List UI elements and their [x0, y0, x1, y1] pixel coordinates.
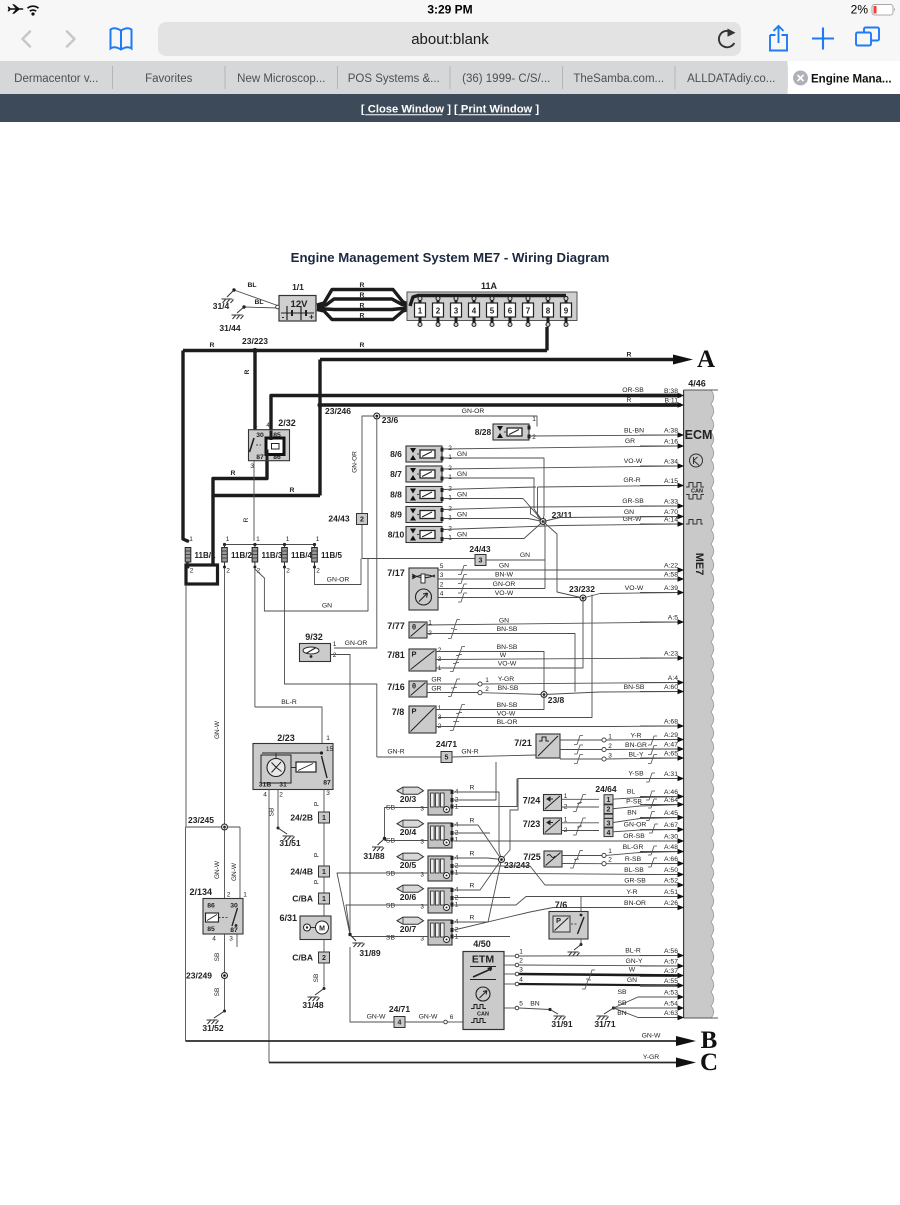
svg-text:A:33: A:33: [664, 499, 678, 506]
wire R relay 2/32 pin 3 down to coil bus: [243, 461, 254, 542]
svg-text:A:22: A:22: [664, 563, 678, 570]
svg-text:C: C: [700, 1049, 718, 1076]
svg-text:31/91: 31/91: [551, 1019, 573, 1029]
wire 11B/4 pin 2 down: [285, 569, 377, 758]
svg-text:1: 1: [322, 869, 326, 876]
oxygen sensor 20/4: [386, 820, 459, 848]
svg-text:2: 2: [438, 647, 442, 654]
svg-text:2: 2: [608, 743, 612, 750]
wire BN-OR 20/7 pin 2 to ECM A:26: [454, 900, 681, 930]
ground 31/4: [213, 290, 234, 311]
svg-text:R: R: [470, 851, 475, 858]
wire GR-R to ECM A:15: [538, 477, 682, 522]
share icon: [770, 26, 787, 51]
wire 20/7 pin 1: [454, 936, 510, 938]
oxygen sensor 20/5: [386, 853, 459, 881]
svg-text:23/8: 23/8: [548, 695, 565, 705]
svg-text:TheSamba.com...: TheSamba.com...: [573, 73, 664, 85]
wire BL-OR 7/8 pin 2 to ECM A:68: [436, 719, 681, 731]
svg-text:A:31: A:31: [664, 771, 678, 778]
svg-text:1: 1: [418, 307, 423, 316]
svg-text:BN-SB: BN-SB: [497, 702, 518, 709]
svg-text:A:54: A:54: [664, 1001, 678, 1008]
wire B battery fan top: [317, 282, 410, 305]
new tab icon: [812, 28, 834, 50]
ECM pin A:34: [640, 459, 684, 469]
svg-text:P-SB: P-SB: [626, 799, 642, 806]
ECM pin A:48: [640, 844, 684, 854]
tab "TheSamba.com...": [573, 73, 664, 85]
injector 8/8: [390, 487, 443, 503]
svg-text:31/51: 31/51: [279, 838, 301, 848]
svg-text:11B/3: 11B/3: [261, 551, 282, 560]
svg-text:2: 2: [455, 895, 459, 902]
node 23/246: [317, 402, 351, 416]
svg-text:ME7: ME7: [693, 553, 705, 576]
ECM pin A:55: [640, 978, 684, 988]
svg-text:7/81: 7/81: [387, 650, 405, 660]
svg-text:4: 4: [440, 591, 444, 598]
svg-text:BL-BN: BL-BN: [624, 428, 644, 435]
ECM pin A:39: [640, 585, 684, 595]
svg-text:BN: BN: [617, 1010, 627, 1017]
ECM CAN symbol: [686, 483, 704, 500]
svg-text:GR-SB: GR-SB: [624, 878, 646, 885]
svg-text:1: 1: [254, 422, 258, 429]
svg-text:2: 2: [436, 307, 441, 316]
svg-text:24/71: 24/71: [436, 739, 458, 749]
svg-text:1: 1: [607, 797, 611, 804]
svg-text:1: 1: [316, 536, 320, 543]
svg-text:BL: BL: [254, 299, 263, 306]
svg-text:GN: GN: [520, 552, 530, 559]
svg-text:4: 4: [212, 936, 216, 943]
svg-text:2: 2: [607, 807, 611, 814]
svg-text:24/2B: 24/2B: [290, 813, 313, 823]
svg-text:GN-R: GN-R: [461, 749, 478, 756]
relay 2/134: [189, 887, 247, 943]
svg-text:CAN: CAN: [477, 1012, 489, 1018]
svg-text:1: 1: [608, 848, 612, 855]
svg-text:Dermacentor v...: Dermacentor v...: [14, 73, 98, 85]
svg-text:ECM: ECM: [685, 428, 713, 442]
svg-text:New Microscop...: New Microscop...: [237, 73, 325, 85]
svg-text:SB: SB: [386, 838, 396, 845]
svg-text:SB: SB: [617, 1000, 627, 1007]
svg-text:R: R: [231, 470, 236, 477]
wire B fuse 8 down to bus: [545, 327, 548, 351]
svg-text:1: 1: [256, 536, 260, 543]
node 23/232: [569, 584, 595, 601]
svg-text:1: 1: [326, 735, 330, 742]
wire SB 2/134 pin 4 to 23/249: [214, 934, 225, 1011]
tab "Favorites": [145, 73, 193, 85]
svg-text:A:29: A:29: [664, 732, 678, 739]
svg-text:SB: SB: [313, 974, 320, 983]
ECM pin A:29: [640, 732, 684, 742]
svg-text:GN-Y: GN-Y: [626, 958, 643, 965]
tab separators: [113, 66, 788, 89]
wire GN connector 24/43 to node 23/11: [486, 522, 545, 561]
svg-text:P: P: [411, 650, 416, 659]
svg-text:5: 5: [519, 1001, 523, 1008]
svg-text:8/9: 8/9: [390, 510, 402, 520]
wire GN-Y 4/50 pin 2 to ECM A:57: [519, 958, 681, 966]
arrow A: [673, 346, 715, 373]
svg-text:1: 1: [455, 837, 459, 844]
svg-text:Favorites: Favorites: [145, 73, 193, 85]
ECM pin A:4: [640, 675, 684, 685]
svg-text:R: R: [627, 397, 632, 404]
wire GN-W ground bus to 24/71: [350, 947, 394, 1022]
wire P 2/23 pin 3 down: [314, 790, 325, 917]
wire 8/7 pin 1 GN: [443, 471, 543, 522]
svg-text:9/32: 9/32: [305, 632, 323, 642]
svg-text:11B/5: 11B/5: [321, 551, 342, 560]
wire node 23/11 to node 23/232: [543, 522, 583, 599]
wire B battery fan 3: [317, 303, 410, 310]
wire R 20/7 pin 4: [454, 860, 502, 923]
ECM pin A:50: [640, 867, 684, 877]
svg-text:7/6: 7/6: [555, 900, 568, 910]
wire Y-GR to ECM A:4: [482, 676, 681, 684]
wire SB 2/23 pin 2 to ground 31/51: [269, 790, 301, 849]
svg-text:A:58: A:58: [664, 572, 678, 579]
svg-text:A:50: A:50: [664, 867, 678, 874]
svg-text:7/16: 7/16: [387, 682, 405, 692]
svg-text:3: 3: [479, 558, 483, 565]
wire B battery fan bottom: [317, 309, 410, 320]
wire BL 7/24 pin 1 via 24/64-1 to ECM A:46: [562, 789, 682, 804]
ECM pin A:57: [640, 959, 684, 969]
svg-text:A:51: A:51: [664, 889, 678, 896]
svg-text:23/245: 23/245: [188, 815, 214, 825]
wire GN-R connector to 7/21: [452, 749, 536, 758]
svg-text:2: 2: [227, 892, 231, 899]
wire BL-SB 20/5 pin 1 to ECM A:50: [454, 867, 681, 875]
ECM ME7 label: [693, 553, 705, 576]
wire BN-GR 7/21 pin 2 to ECM: [560, 742, 681, 755]
svg-text:BN-SB: BN-SB: [497, 626, 518, 633]
ECM pin A:33: [640, 499, 684, 509]
ECM pin A:70: [640, 509, 684, 519]
svg-text:A:34: A:34: [664, 459, 678, 466]
ground 31/44: [219, 307, 244, 333]
fuse 9: [561, 296, 572, 327]
ECM pin A:53: [640, 990, 684, 1000]
svg-text:BL-Y: BL-Y: [628, 752, 644, 759]
svg-text:SB: SB: [269, 808, 276, 817]
wire BL-R 4/50 pin 1 to ECM A:56: [519, 948, 681, 957]
4/50 pin 3: [504, 967, 523, 976]
svg-text:GN-OR: GN-OR: [327, 577, 350, 584]
wire R-SB 7/25 pin 2 to ECM A:66: [562, 856, 681, 868]
wire 7/6 to Y-R line: [580, 897, 582, 912]
sensor 7/77: [387, 620, 432, 639]
svg-text:P: P: [314, 853, 321, 857]
svg-text:31: 31: [279, 782, 287, 789]
svg-text:SB: SB: [386, 805, 396, 812]
wire 8/8 pin 2: [443, 487, 536, 490]
svg-text:1: 1: [333, 641, 337, 648]
ignition coil 11B/2: [221, 536, 252, 575]
wire GN-R into 7/21: [377, 749, 442, 758]
sensor 7/23: [523, 817, 568, 835]
sensor 7/24: [523, 793, 568, 811]
wire GN-OR 7/17 pin2 junction: [544, 560, 546, 589]
wire B relay loop down to 11B/1: [211, 496, 214, 566]
wire GN-OR 7/17 pin 2: [438, 581, 545, 593]
svg-text:R: R: [210, 342, 215, 349]
ground 31/71 fan to ECM A:53 A:54 A:63: [594, 989, 681, 1029]
svg-text:R: R: [243, 517, 250, 522]
svg-text:A:16: A:16: [664, 439, 678, 446]
ECM pin A:26: [640, 900, 684, 910]
svg-text:GR-SB: GR-SB: [622, 498, 644, 505]
tab "(36) 1999- C/S/...": [462, 73, 550, 85]
wire BN 7/23 pin 1 via 24/64-3 to ECM A:45: [562, 810, 682, 828]
wire GN node 23/11 to ECM A:70: [543, 509, 681, 522]
svg-text:1: 1: [532, 416, 536, 423]
svg-text:-: -: [282, 313, 285, 322]
ECM pin A:65: [640, 751, 684, 761]
ECM pin A:63: [640, 1010, 684, 1020]
ignition coil 11B/4: [281, 536, 312, 575]
svg-text:86: 86: [207, 903, 215, 910]
throttle module 4/50 ETM: [463, 939, 504, 1030]
svg-text:GN: GN: [457, 512, 467, 519]
svg-text:5: 5: [490, 307, 495, 316]
fuse 1: [415, 296, 426, 327]
svg-text:P: P: [314, 802, 321, 806]
wire BN-SB 7/8 pin 1 to node 23/8: [436, 695, 544, 714]
svg-text:GR: GR: [431, 686, 441, 693]
svg-text:A:68: A:68: [664, 719, 678, 726]
wire 2/134 pin 3 stub: [236, 934, 238, 947]
svg-text:GN-W: GN-W: [642, 1033, 661, 1040]
relay 2/23: [253, 733, 333, 799]
svg-text:M: M: [319, 926, 325, 933]
svg-text:2%: 2%: [851, 3, 869, 17]
svg-text:2/32: 2/32: [278, 418, 296, 428]
svg-text:1: 1: [455, 934, 459, 941]
wire GN-OR 11B/5 pin 2 to connector 24/43: [315, 559, 362, 585]
fuse 4: [469, 296, 480, 327]
svg-text:1: 1: [448, 495, 452, 502]
wire GR 8/6 pin 2 to ECM A:16: [443, 438, 681, 449]
svg-text:about:blank: about:blank: [411, 31, 489, 48]
svg-text:87: 87: [230, 927, 238, 934]
svg-text:BL-GR: BL-GR: [623, 844, 644, 851]
ECM pin A:23: [640, 651, 684, 661]
svg-text:A:53: A:53: [664, 990, 678, 997]
wire GN-W 23/245 down to 2/134: [224, 827, 226, 898]
svg-text:20/7: 20/7: [400, 924, 417, 934]
wire BL battery to 31/44: [242, 299, 279, 309]
wire GR 7/16 pin 1: [427, 677, 489, 689]
svg-text:7/23: 7/23: [523, 819, 541, 829]
svg-text:A:47: A:47: [664, 742, 678, 749]
motor 6/31: [279, 913, 331, 940]
svg-text:BL: BL: [627, 789, 636, 796]
sensor 7/81: [387, 647, 441, 672]
svg-text:31/48: 31/48: [302, 1000, 324, 1010]
injector 8/7: [390, 466, 443, 482]
svg-text:2: 2: [190, 568, 194, 575]
svg-text:20/5: 20/5: [400, 860, 417, 870]
svg-text:31/52: 31/52: [202, 1023, 224, 1033]
fuse 2: [433, 296, 444, 327]
oxygen sensor 20/3: [386, 787, 459, 815]
4/50 pin 5: [504, 1001, 523, 1010]
back button (disabled): [23, 32, 31, 47]
4/50 pin 2: [504, 958, 523, 967]
svg-text:GN: GN: [457, 492, 467, 499]
fuse 7: [523, 296, 534, 327]
injector 8/9: [390, 507, 443, 523]
wire OR-SB relay 2/32 pin 4 to ECM B:38: [271, 387, 681, 430]
svg-text:OR-SB: OR-SB: [622, 387, 644, 394]
svg-text:BL-OR: BL-OR: [497, 719, 518, 726]
svg-text:12V: 12V: [291, 299, 309, 310]
svg-text:VO-W: VO-W: [625, 585, 644, 592]
wire 11B/3 pin 2 down (BL-R): [254, 569, 256, 708]
svg-text:VO-W: VO-W: [498, 661, 517, 668]
svg-text:BL: BL: [247, 282, 256, 289]
svg-text:1: 1: [448, 454, 452, 461]
svg-text:2: 2: [279, 792, 283, 799]
wire BN 4/50 pin 5 to ground 31/91: [519, 1001, 573, 1030]
svg-text:A:55: A:55: [664, 978, 678, 985]
battery 1/1 12V: [276, 282, 316, 322]
svg-text:20/4: 20/4: [400, 827, 417, 837]
oxygen sensor 20/7: [386, 917, 459, 945]
wire BN-SB 7/77 pin 2: [427, 626, 575, 692]
svg-text:GN: GN: [499, 563, 509, 570]
svg-text:C/BA: C/BA: [292, 894, 313, 904]
ground 31/89: [348, 933, 381, 958]
oxygen sensor 20/6: [386, 885, 459, 913]
wire 8/9 pin 1 GN: [443, 512, 543, 522]
svg-text:85: 85: [207, 926, 215, 933]
wire 7/6 to ground: [568, 939, 583, 956]
wire SB 20/3 pin 3: [385, 808, 429, 839]
status bar airplane icon: [8, 4, 24, 14]
svg-text:SB: SB: [214, 953, 221, 962]
svg-text:20/6: 20/6: [400, 892, 417, 902]
wire R 20/6 pin 4: [454, 860, 502, 891]
svg-text:SB: SB: [386, 935, 396, 942]
wire GR-SB to ECM A:33: [531, 498, 682, 522]
svg-text:BN: BN: [627, 810, 637, 817]
svg-text:A:39: A:39: [664, 585, 678, 592]
svg-text:4: 4: [266, 422, 270, 429]
svg-text:1/1: 1/1: [292, 282, 304, 292]
svg-text:3:29 PM: 3:29 PM: [427, 3, 472, 17]
svg-text:2/23: 2/23: [277, 733, 295, 743]
svg-text:A:5: A:5: [668, 615, 678, 622]
wire VO-W 7/8 pin 3 label: [453, 711, 516, 722]
svg-text:11B/2: 11B/2: [231, 551, 252, 560]
wire B 11B/1 shield loop: [186, 562, 218, 584]
wire GN-W 24/71 to 4/50 pin 6: [405, 1014, 463, 1024]
wire VO-W 7/81 pin 1 to node 23/232: [436, 598, 583, 672]
sensor 7/21: [514, 734, 560, 758]
wire BN-SB 7/81 pin 2 to node 23/8: [436, 644, 544, 695]
svg-text:GN-W: GN-W: [214, 720, 221, 739]
svg-text:P: P: [314, 880, 321, 884]
svg-text:31/89: 31/89: [359, 948, 381, 958]
svg-text:23/6: 23/6: [382, 415, 399, 425]
wire SB 20/6 pin 3: [346, 905, 428, 935]
ECM pin A:51: [640, 889, 684, 899]
node 23/11: [540, 510, 573, 525]
fuse 5: [487, 296, 498, 327]
battery icon: [872, 5, 895, 16]
wire 8/8 pin 1 GN: [443, 492, 543, 522]
ECM pin A:67: [640, 822, 684, 832]
svg-text:8/8: 8/8: [390, 490, 402, 500]
svg-text:POS Systems &...: POS Systems &...: [348, 73, 440, 85]
svg-text:R: R: [290, 487, 295, 494]
wire GN-W B-line: [186, 1033, 677, 1042]
svg-text:2: 2: [226, 568, 230, 575]
ECM pin A:56: [640, 948, 684, 958]
wire GN-OR 23/6 down to 9/32: [334, 416, 377, 648]
svg-text:4/50: 4/50: [473, 939, 491, 949]
svg-text:6: 6: [508, 307, 513, 316]
svg-text:7/24: 7/24: [523, 796, 541, 806]
fuse bus bar: [410, 296, 566, 307]
svg-text:3: 3: [440, 572, 444, 579]
svg-text:1: 1: [438, 665, 442, 672]
ground 31/88: [363, 837, 386, 861]
svg-text:9: 9: [564, 307, 569, 316]
svg-text:3: 3: [438, 714, 442, 721]
wire W 7/81 pin 3 to ECM A:23: [436, 652, 681, 664]
svg-text:R: R: [470, 785, 475, 792]
fuse 3: [451, 296, 462, 327]
ECM pin A:15: [640, 478, 684, 488]
wire 11B/1 shield to 23/245: [185, 585, 187, 828]
svg-text:A:67: A:67: [664, 822, 678, 829]
svg-text:Y-R: Y-R: [630, 733, 641, 740]
ECM pulse symbol A:14: [686, 520, 703, 525]
svg-text:ALLDATAdiy.co...: ALLDATAdiy.co...: [687, 73, 775, 85]
svg-text:2: 2: [286, 568, 290, 575]
svg-text:23/246: 23/246: [325, 406, 351, 416]
svg-text:31B: 31B: [259, 782, 272, 789]
svg-text:8: 8: [546, 307, 551, 316]
svg-text:3: 3: [608, 753, 612, 760]
svg-text:BN-OR: BN-OR: [624, 900, 646, 907]
svg-text:A:45: A:45: [664, 810, 678, 817]
forward button (disabled): [67, 32, 75, 47]
svg-text:A:63: A:63: [664, 1010, 678, 1017]
tab switcher icon: [856, 28, 879, 46]
svg-text:A:66: A:66: [664, 856, 678, 863]
wire A-line to connector A: [320, 352, 673, 360]
wire BL-BN 8/28 pin 2 to ECM A:38: [530, 428, 681, 437]
svg-text:A:57: A:57: [664, 959, 678, 966]
close/print links: [361, 104, 539, 116]
svg-text:2: 2: [360, 517, 364, 524]
svg-text:BN-GR: BN-GR: [625, 742, 647, 749]
svg-text:GN-W: GN-W: [367, 1014, 386, 1021]
svg-text:R: R: [470, 818, 475, 825]
svg-text:R: R: [360, 282, 365, 289]
wire 20/5 pin 2 to ECM A:52: [454, 866, 681, 885]
